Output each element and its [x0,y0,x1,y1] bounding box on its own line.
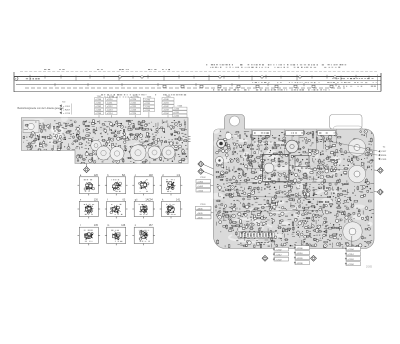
IF transformer label MF302 [286,131,304,136]
svg-text:C317: C317 [381,151,387,153]
svg-text:145: 145 [94,224,99,227]
svg-text:+C212: +C212 [107,106,114,108]
bracket tab (outline) [330,115,363,130]
svg-text:167: 167 [149,224,154,227]
potentiometer hole P304 [348,165,365,182]
coil inside MF304 [264,163,274,173]
svg-text:+C213: +C213 [107,110,114,112]
module divider lines [252,130,337,159]
leader lines to right callouts [318,139,378,151]
svg-text:+1305: +1305 [197,208,204,210]
chassis right end bracket [380,73,382,91]
svg-text:2/305: 2/305 [366,266,373,269]
chassis bottom rail [14,91,381,93]
svg-text:+C241: +C241 [163,103,170,105]
svg-text:+C230: +C230 [144,100,151,102]
svg-text:Bestückungsseite von der Lötse: Bestückungsseite von der Lötseite gesehe… [18,107,65,110]
electrolytic capacitor C221 [96,146,110,160]
tuning capacitor window [23,121,39,133]
svg-text:+C304: +C304 [347,249,354,251]
chassis rail 3 [16,84,381,86]
svg-text:+C220: +C220 [130,99,137,101]
svg-text:+C203: +C203 [95,110,102,112]
electrolytic capacitor C223 [130,145,146,161]
svg-text:+C204: +C204 [95,113,102,115]
electrolytic capacitor C222 [110,146,124,160]
svg-text:+C221: +C221 [130,103,137,105]
svg-text:+C223: +C223 [130,110,137,112]
coil L301 [286,140,299,153]
svg-text:+1302: +1302 [197,181,204,183]
long signal traces [226,169,344,212]
svg-text:BA: BA [122,174,126,177]
svg-text:+1502: +1502 [197,190,204,192]
trimmer T301 [217,139,226,148]
small pulleys / lamps on chassis [163,85,166,87]
chassis rail 2 [16,80,381,82]
loudspeaker cutout [343,222,362,241]
svg-text:+C314: +C314 [347,254,354,256]
IF transformer label MF301 [253,131,271,136]
svg-text:+1405: +1405 [197,213,204,215]
chassis top rail [14,76,381,78]
svg-text:+C302: +C302 [275,249,282,251]
chassis tick marks [30,75,369,86]
sparse labels above band (left half) [44,68,46,71]
screw symbol right 1 [374,169,378,171]
bottom leader lines [281,236,352,246]
potentiometer hole P303 [348,139,365,156]
dial cord path (dashed) [25,87,345,89]
electrolytic capacitor C225 [162,146,175,159]
svg-text:+C250: +C250 [173,109,180,111]
svg-text:+C251: +C251 [173,112,180,114]
mounting screw leader below strip [86,164,88,167]
mounting tab hole [230,116,240,126]
scale numerals below band (left) [101,94,103,95]
svg-text:+1402: +1402 [197,186,204,188]
svg-text:P202: P202 [200,177,206,179]
screw symbol bottom 1 [262,255,268,261]
svg-text:+C222: +C222 [130,106,137,108]
svg-text:+R326: +R326 [296,258,303,260]
trimmer T302 [216,157,224,165]
svg-text:Teil: Teil [62,101,66,103]
svg-text:m: m [107,224,109,227]
svg-text:+C233: +C233 [144,110,151,112]
svg-text:+C322: +C322 [275,259,282,261]
svg-text:126: 126 [94,174,99,177]
board copper mottling [213,140,221,147]
small can [295,156,309,167]
svg-text:146: 146 [121,224,126,227]
electrolytic capacitor C220 [91,140,102,151]
svg-text:+C211: +C211 [107,103,114,105]
svg-text:126: 126 [94,198,99,201]
test point screws P201/P202 [204,165,217,171]
svg-text:C319: C319 [381,159,387,161]
svg-text:+C202: +C202 [95,106,102,108]
svg-text:+C243: +C243 [163,110,170,112]
svg-text:= C215: = C215 [63,113,71,115]
part number row above band (right half) [206,64,207,65]
svg-text:Tst: Tst [280,244,283,247]
screw symbol right 2 [374,191,378,193]
dial drive / chassis side-view band [14,71,381,92]
hole [225,133,232,140]
svg-text:+R336: +R336 [296,263,303,265]
svg-text:+C210: +C210 [107,99,114,101]
svg-text:+C242: +C242 [163,106,170,108]
svg-text:+C324: +C324 [347,259,354,261]
svg-text:+C232: +C232 [144,107,151,109]
board component texture [220,131,221,132]
copper trace ribbons [229,235,270,243]
svg-text:Tst: Tst [301,243,304,246]
svg-text:148: 148 [149,174,154,177]
IF can MF304 outline [263,155,290,182]
electrolytic capacitor C224 [148,146,161,159]
svg-text:+C231: +C231 [144,103,151,105]
svg-text:Tst: Tst [383,146,386,149]
svg-text:+C312: +C312 [275,254,282,256]
IF transformer label MF303 [318,131,336,136]
svg-text:+C240: +C240 [163,99,170,101]
fittings inside band [332,77,334,80]
svg-text:+C201: +C201 [95,103,102,105]
svg-text:+1505: +1505 [197,217,204,219]
strip copper mottling [91,140,103,146]
chassis left end bracket [13,72,15,92]
svg-text:141: 141 [176,198,181,201]
strip edge pins [188,137,191,142]
svg-text:= C201: = C201 [63,106,71,108]
mounting screw symbol [84,167,90,173]
svg-text:+C214: +C214 [107,113,114,115]
svg-text:= R207: = R207 [63,109,71,111]
svg-text:P201: P201 [200,204,206,206]
svg-text:R316: R316 [381,155,387,157]
svg-text:+C244: +C244 [163,113,170,115]
svg-text:+R316: +R316 [296,253,303,255]
strip component texture [53,119,56,122]
dial cord line (dotted) [20,70,377,72]
svg-text:+C224: +C224 [130,113,137,115]
connector pad row [238,231,276,233]
svg-text:+C334: +C334 [347,264,354,266]
svg-text:+C200: +C200 [95,99,102,101]
svg-text:1AC94: 1AC94 [145,198,153,201]
scale numerals inside band (right) [213,89,214,90]
svg-text:Tst: Tst [352,244,355,247]
svg-text:+R306: +R306 [296,248,303,250]
screw symbol bottom 2 [311,255,317,261]
